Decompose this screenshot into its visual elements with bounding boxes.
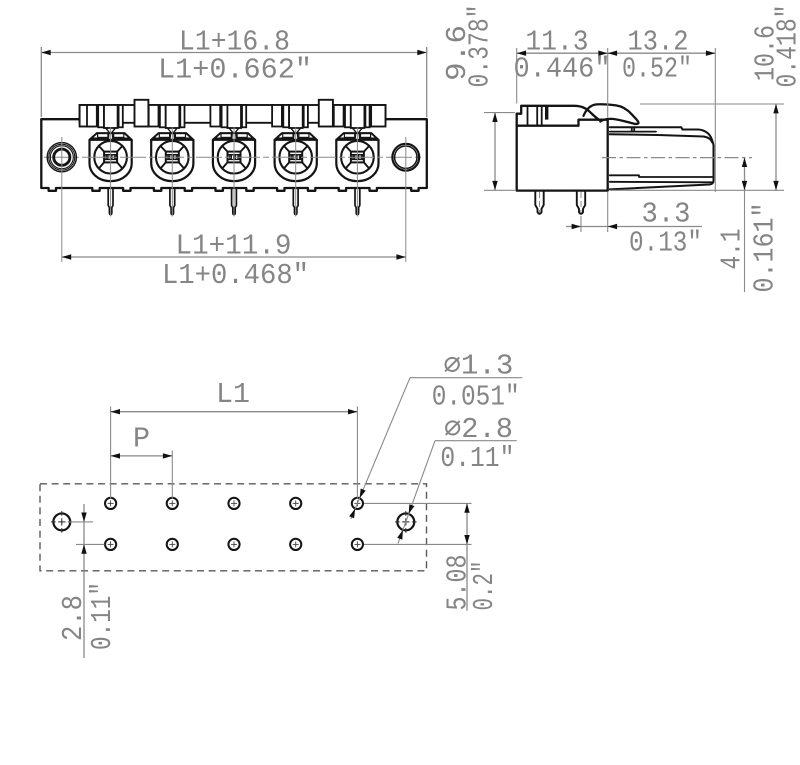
dimension 2.8 line [83, 504, 85, 658]
leader line dia1.3 [410, 377, 522, 379]
pole 3: centre line [233, 128, 235, 217]
pole 1: wire funnel [106, 128, 116, 140]
pole 2: wire funnel [167, 128, 177, 140]
pole 1: clamp top trapezoid [90, 133, 132, 140]
dimension 3.3 extension lines [580, 216, 582, 232]
dimension L1 (plan) line [111, 411, 358, 413]
dimension 3.3 arrows [572, 224, 581, 229]
pole 2: clamp black bars [152, 138, 193, 140]
drill hole 1.3mm pole 2 row 2 [167, 539, 178, 550]
svg-text:0.051": 0.051" [432, 381, 520, 414]
pole 3: housing segment blocks [210, 105, 220, 127]
pole 2: clamp windows [159, 134, 169, 138]
svg-text:P: P [133, 423, 150, 456]
svg-text:L1+0.468": L1+0.468" [162, 259, 309, 292]
pole 5: centre line [356, 128, 358, 217]
pole 5: wire funnel [352, 128, 362, 140]
dimension P extension line [171, 451, 173, 499]
front view: raised tab 1 [135, 100, 149, 127]
drilling plan: board outline (dashed) [40, 484, 427, 571]
pole 2: screw head [156, 141, 189, 174]
dimension L1+16.8 arrows [41, 50, 50, 55]
side view: release lever [584, 104, 639, 124]
svg-text:0.2": 0.2" [468, 561, 501, 611]
pole 1: clamp body [90, 140, 132, 181]
dimension 2.8 extension lines [69, 521, 93, 523]
pole 2: screw cross slot [161, 146, 184, 168]
pole 4: clamp windows [283, 134, 293, 138]
pole 1: housing segment blocks [87, 105, 97, 127]
dimension P arrows [111, 453, 120, 458]
svg-text:∅1.3: ∅1.3 [443, 350, 513, 383]
pole 3: clamp windows [221, 134, 231, 138]
dimension 11.3/13.2 line [517, 52, 716, 54]
front view: horizontal centre line [44, 156, 424, 158]
dimension L1+16.8 extension lines [40, 47, 42, 117]
side view: solder pin row 1 [535, 191, 543, 214]
front view: left flange threaded hole [47, 143, 76, 172]
drill hole 1.3mm pole 4 row 2 [290, 539, 301, 550]
terminal pole 3 [210, 105, 255, 217]
dimension 9.6 line [494, 113, 496, 191]
side view: plug body right/bottom [610, 146, 714, 189]
pole 4: clamp body [275, 140, 317, 181]
pole 4: centre line [295, 128, 297, 217]
pole 5: clamp black bars [337, 138, 378, 140]
svg-text:0.11": 0.11" [440, 442, 514, 475]
pole 3: screw cross slot [222, 146, 245, 168]
side view: plug rail lower line and notch [610, 127, 656, 131]
pole 1: screw head [94, 141, 127, 174]
drill hole 2.8mm left [53, 513, 70, 530]
dimension L1+16.8 line [41, 52, 426, 54]
svg-text:0.446": 0.446" [514, 53, 611, 86]
front view: raised tab 2 [319, 100, 333, 127]
dimension L1+11.9 line [62, 256, 406, 258]
side view: plug top edge [610, 134, 712, 142]
drill hole 1.3mm pole 1 row 1 [105, 498, 116, 509]
front view: strip right end cap [371, 105, 385, 127]
leader line dia2.8 [435, 440, 517, 442]
drill hole 1.3mm pole 3 row 2 [228, 539, 239, 550]
svg-text:0.11": 0.11" [86, 582, 119, 650]
svg-text:L1: L1 [216, 378, 250, 411]
dimension P line [111, 455, 173, 457]
drill hole 1.3mm pole 4 row 1 [290, 498, 301, 509]
pole 5: clamp top trapezoid [336, 133, 378, 140]
dimension 5.08 extension lines [364, 502, 472, 504]
pole 3: solder pin [232, 188, 237, 215]
dimension L1+11.9 extension lines [61, 137, 63, 262]
leader dia1.3 arrows [360, 489, 366, 499]
dimension 10.6 line [775, 104, 777, 190]
dimension 10.6 extension lines [640, 103, 784, 105]
svg-text:0.378": 0.378" [463, 5, 496, 88]
dimension 9.6 extension lines [484, 112, 515, 114]
pole 4: screw cross slot [284, 146, 307, 168]
pole 3: clamp black bars [214, 138, 255, 140]
side view: plug bottom rails [610, 175, 713, 182]
pole 4: wire funnel [291, 128, 301, 140]
terminal pole 2 [149, 105, 194, 217]
drill hole 1.3mm pole 1 row 2 [105, 539, 116, 550]
pole 2: solder pin [170, 188, 175, 215]
pole 5: solder pin [355, 188, 360, 215]
drill hole 2.8mm right [397, 513, 414, 530]
pole 4: housing segment blocks [272, 105, 282, 127]
front view: upper housing strip [80, 105, 386, 123]
dimension 5.08 line [466, 503, 468, 610]
front view: connector body outline with mounting feet [41, 119, 427, 191]
pole 4: solder pin [293, 188, 298, 215]
dimension 4.1 line [744, 158, 746, 191]
pole 4: screw slot knurl [289, 155, 302, 160]
svg-text:4.1: 4.1 [716, 229, 749, 270]
pole 3: wire funnel [229, 128, 239, 140]
pole 5: clamp windows [344, 134, 354, 138]
svg-text:L1+11.9: L1+11.9 [176, 230, 292, 263]
pole 5: screw slot knurl [351, 155, 364, 160]
svg-text:L1+0.662": L1+0.662" [158, 54, 312, 87]
pole 3: screw slot knurl [228, 155, 241, 160]
terminal pole 1 [87, 105, 132, 217]
svg-text:0.418": 0.418" [772, 5, 800, 88]
pole 3: clamp top trapezoid [213, 133, 255, 140]
front view: right flange hole [392, 144, 419, 171]
side view: solder pin row 2 [577, 191, 585, 214]
dimension L1+11.9 arrows [62, 254, 71, 259]
side view: upper housing block [517, 106, 599, 126]
pole 1: clamp black bars [90, 138, 131, 140]
svg-text:0.52": 0.52" [622, 53, 692, 86]
pole 5: screw cross slot [346, 146, 369, 168]
pole 3: screw head [218, 141, 251, 174]
dimension 5.08 arrows [464, 503, 469, 512]
dimension 10.6 arrows [773, 104, 778, 113]
pole 1: solder pin [108, 188, 113, 215]
front view: strip left end cap [80, 105, 95, 127]
pole 5: housing segment blocks [334, 105, 344, 127]
pole 4: screw head [279, 141, 312, 174]
pole 2: clamp body [151, 140, 193, 181]
svg-text:0.13": 0.13" [629, 227, 702, 260]
pole 3: clamp body [213, 140, 255, 181]
pole 5: clamp body [336, 140, 378, 181]
dimension 3.3 line [566, 226, 581, 228]
dimension L1 (plan) arrows [111, 409, 120, 414]
dimension 9.6 arrows [492, 113, 497, 122]
leader dia2.8 arrows [409, 504, 415, 514]
pole 4: clamp top trapezoid [275, 133, 317, 140]
pole 2: centre line [171, 128, 173, 217]
pole 1: screw slot knurl [104, 155, 117, 160]
drill hole 1.3mm pole 5 row 2 [352, 539, 363, 550]
side view: plug top rail [610, 127, 714, 146]
pole 5: screw head [341, 141, 374, 174]
pole 2: housing segment blocks [149, 105, 159, 127]
pole 2: screw slot knurl [166, 155, 179, 160]
dimension L1 (plan) extension lines [110, 407, 112, 499]
pole 1: screw cross slot [99, 146, 122, 168]
dimension 2.8 arrows [81, 513, 86, 522]
pole 2: clamp top trapezoid [151, 133, 193, 140]
dimension 13.2 arrows [608, 51, 617, 56]
terminal pole 4 [272, 105, 317, 217]
drill hole 1.3mm pole 5 row 1 [352, 498, 363, 509]
dimension 4.1 arrows [742, 158, 747, 167]
pole 4: clamp black bars [275, 138, 316, 140]
side view: upper block ribs [528, 106, 542, 126]
dimension 11.3/13.2 extension lines [516, 48, 518, 104]
dimension 11.3 arrows [517, 51, 526, 56]
drill hole 1.3mm pole 2 row 1 [167, 498, 178, 509]
side view: main housing body [517, 120, 608, 191]
pole 1: clamp windows [98, 134, 108, 138]
svg-text:0.161": 0.161" [749, 203, 782, 293]
pole 1: centre line [110, 128, 112, 217]
drill hole 1.3mm pole 3 row 1 [228, 498, 239, 509]
side view: plug centre line [602, 157, 752, 159]
terminal pole 5 [334, 105, 379, 217]
